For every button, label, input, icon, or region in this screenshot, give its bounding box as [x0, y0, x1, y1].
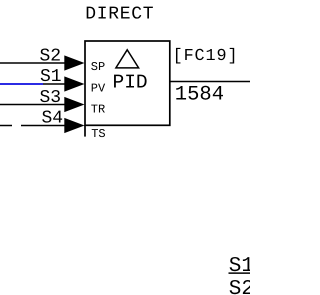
PID function block U1 body [85, 41, 170, 125]
svg-text:TR: TR [91, 102, 105, 116]
svg-text:S4: S4 [42, 109, 64, 129]
wire S1 to PV pin (blue) [0, 83, 43, 85]
output wire from PID block [170, 81, 250, 83]
arrow into TS pin [64, 118, 84, 133]
arrow into PV pin [64, 76, 84, 91]
svg-text:[FC19]: [FC19] [173, 47, 239, 66]
svg-text:S1: S1 [229, 255, 250, 278]
PID block left-edge extension for TS pin [84, 125, 86, 137]
svg-text:S1: S1 [40, 67, 62, 87]
svg-text:PV: PV [91, 81, 106, 95]
wire S3 to TR pin [0, 104, 66, 106]
svg-text:S3: S3 [40, 88, 62, 108]
arrow into SP pin [64, 55, 84, 70]
wire S4 solid segment [21, 125, 66, 127]
svg-text:1584: 1584 [175, 84, 224, 107]
arrow into TR pin [64, 97, 84, 112]
svg-text:SP: SP [91, 60, 105, 74]
svg-text:DIRECT: DIRECT [85, 5, 154, 25]
svg-text:S2: S2 [229, 278, 250, 295]
wire S2 to SP pin [0, 62, 66, 64]
svg-text:PID: PID [113, 72, 148, 94]
wire S1 underline segment (black) [43, 83, 66, 85]
wire S4 to TS pin (dashed) [0, 125, 12, 127]
underline for bottom S1 [229, 272, 251, 274]
svg-text:TS: TS [91, 127, 105, 141]
svg-text:S2: S2 [40, 46, 62, 66]
delta symbol inside PID block [116, 50, 139, 68]
